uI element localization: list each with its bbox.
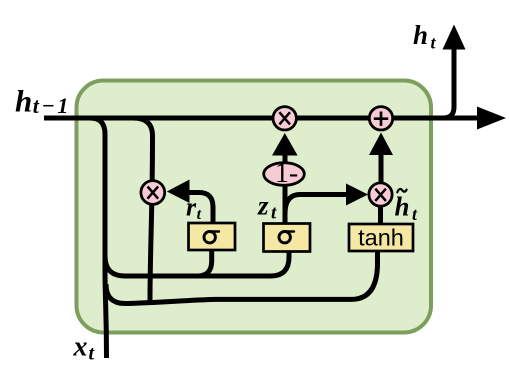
arrowhead: into left x <box>167 180 190 204</box>
svg-text:ht−1: ht−1 <box>15 84 71 119</box>
wire: right x up to + <box>379 152 384 184</box>
svg-text:ht: ht <box>413 20 437 53</box>
wire bus1: gate input bus <box>105 250 289 276</box>
wire B: h branch through reset gate <box>134 118 153 301</box>
arrowhead: z into right x <box>346 184 368 206</box>
gate: sigma2 box <box>264 224 311 252</box>
op: main multiply circle <box>273 107 296 130</box>
arrowhead: into + <box>369 133 393 156</box>
wire A: h/x vertical at left <box>90 118 107 358</box>
wire: h_t branch up <box>443 46 454 118</box>
gate: tanh box <box>349 224 413 251</box>
wire: z vertical (sigma2 to 1-) <box>283 150 288 226</box>
op: 1- ellipse <box>264 163 305 186</box>
arrowhead: 1- into main x <box>272 133 298 156</box>
svg-text:1-: 1- <box>275 158 298 189</box>
wire: z branch right to x <box>285 195 347 215</box>
GRU cell body <box>77 81 432 333</box>
op: plus circle <box>369 107 392 130</box>
svg-text:xt: xt <box>73 332 96 365</box>
wire: sigma1 bottom stub <box>197 249 212 276</box>
svg-text:tanh: tanh <box>358 225 404 251</box>
arrowhead: h_t up <box>443 25 466 50</box>
gate: sigma1 box <box>189 223 236 250</box>
wire: tanh top to right x <box>378 206 383 226</box>
op: right multiply circle <box>369 183 392 206</box>
wire bus2: tanh input bus <box>106 250 378 304</box>
op: left multiply circle <box>141 181 165 205</box>
arrowhead: h_t output right <box>477 107 506 130</box>
wire: main h line <box>44 116 480 121</box>
wire: r gate arrow into left x <box>189 193 213 225</box>
